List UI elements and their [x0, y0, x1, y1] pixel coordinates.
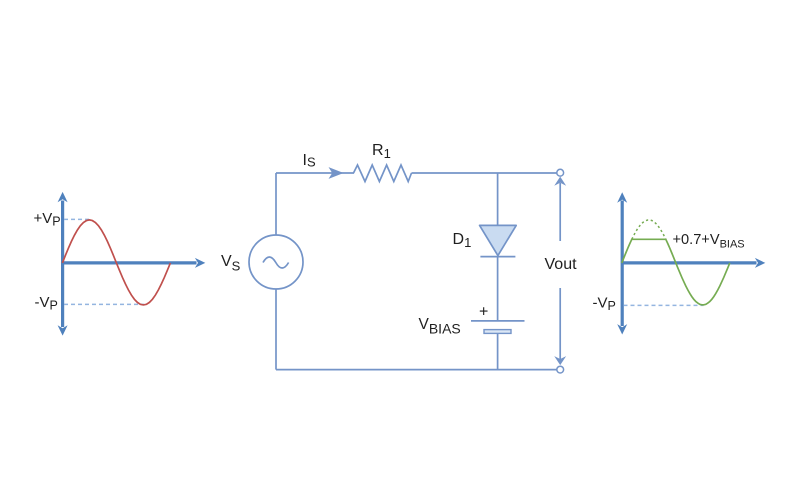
input -Vp dashed level line	[64, 303, 144, 305]
Vout arrow up	[555, 177, 565, 241]
output terminal top	[557, 169, 564, 176]
wire source top lead	[275, 173, 277, 235]
output -Vp dashed level line	[624, 304, 704, 306]
output clipped waveform	[622, 239, 730, 304]
svg-text:IS: IS	[303, 152, 316, 170]
wire bottom	[276, 369, 557, 371]
wire battery to bottom	[497, 333, 499, 369]
wire top from source to resistor	[276, 172, 354, 174]
resistor R1	[354, 165, 412, 182]
diode D1	[480, 225, 517, 256]
battery Vbias	[471, 321, 525, 334]
input sine wave	[62, 220, 170, 305]
wire top from resistor to output terminal	[412, 172, 558, 174]
svg-text:Vout: Vout	[545, 256, 578, 273]
Vout arrow down	[555, 288, 565, 364]
current arrow Is	[330, 168, 343, 178]
svg-text:+: +	[479, 304, 488, 321]
output dotted unclipped peak	[632, 220, 666, 239]
output graph vertical axis	[617, 192, 627, 334]
input graph horizontal axis	[63, 258, 206, 268]
wire from top node to diode	[497, 173, 499, 226]
output terminal bottom	[557, 366, 564, 373]
wire source bottom lead	[275, 289, 277, 370]
wire diode to battery	[497, 257, 499, 321]
output graph horizontal axis	[622, 258, 765, 268]
voltage source Vs	[249, 235, 303, 289]
input +Vp dashed level line	[64, 218, 91, 220]
input graph vertical axis	[58, 192, 68, 336]
